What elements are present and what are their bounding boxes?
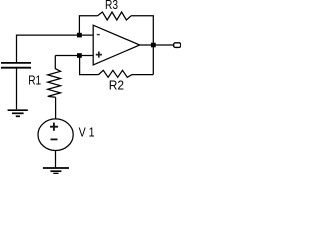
op-amp U1 minus input marker (97, 34, 100, 36)
svg-text:R3: R3 (105, 0, 118, 12)
ground below V1 (43, 168, 69, 174)
wire minus-input rail from capacitor to op-amp (17, 35, 93, 63)
resistor R2 zigzag (99, 70, 133, 77)
V1 plus marker (50, 123, 58, 131)
wire R1 bottom stem to V1 (55, 97, 57, 119)
node junction dot on minus wire (77, 33, 82, 38)
wire bottom rail right lead (132, 74, 153, 76)
ground below capacitor (8, 110, 28, 116)
voltage source V1 body (38, 119, 73, 151)
wire capacitor bottom stem (16, 68, 18, 110)
op-amp U1 plus input marker (96, 52, 102, 58)
op-amp U1 triangle (93, 25, 140, 65)
resistor R1 vertical zigzag with top stem (48, 56, 61, 98)
node output junction dot (151, 43, 156, 48)
wire from plus-wire junction down to bottom feedback rail (80, 56, 99, 75)
wire top rail right lead and right vertical (131, 16, 153, 75)
terminal output pin (174, 43, 181, 48)
wire V1 bottom stem (55, 151, 57, 168)
wire plus-input rail from R1 top to op-amp (55, 55, 93, 57)
wire top-left vertical from minus rail up to feedback rail (79, 16, 97, 35)
node junction dot on plus wire (77, 53, 82, 58)
svg-text:V 1: V 1 (79, 125, 95, 140)
svg-text:R1: R1 (28, 72, 41, 87)
capacitor C1 bottom plate (1, 67, 31, 69)
capacitor C1 top plate (1, 62, 31, 64)
V1 minus marker (51, 138, 58, 140)
svg-text:R2: R2 (109, 77, 124, 92)
resistor R3 zigzag (98, 12, 131, 20)
wire op-amp output to terminal (140, 44, 174, 46)
